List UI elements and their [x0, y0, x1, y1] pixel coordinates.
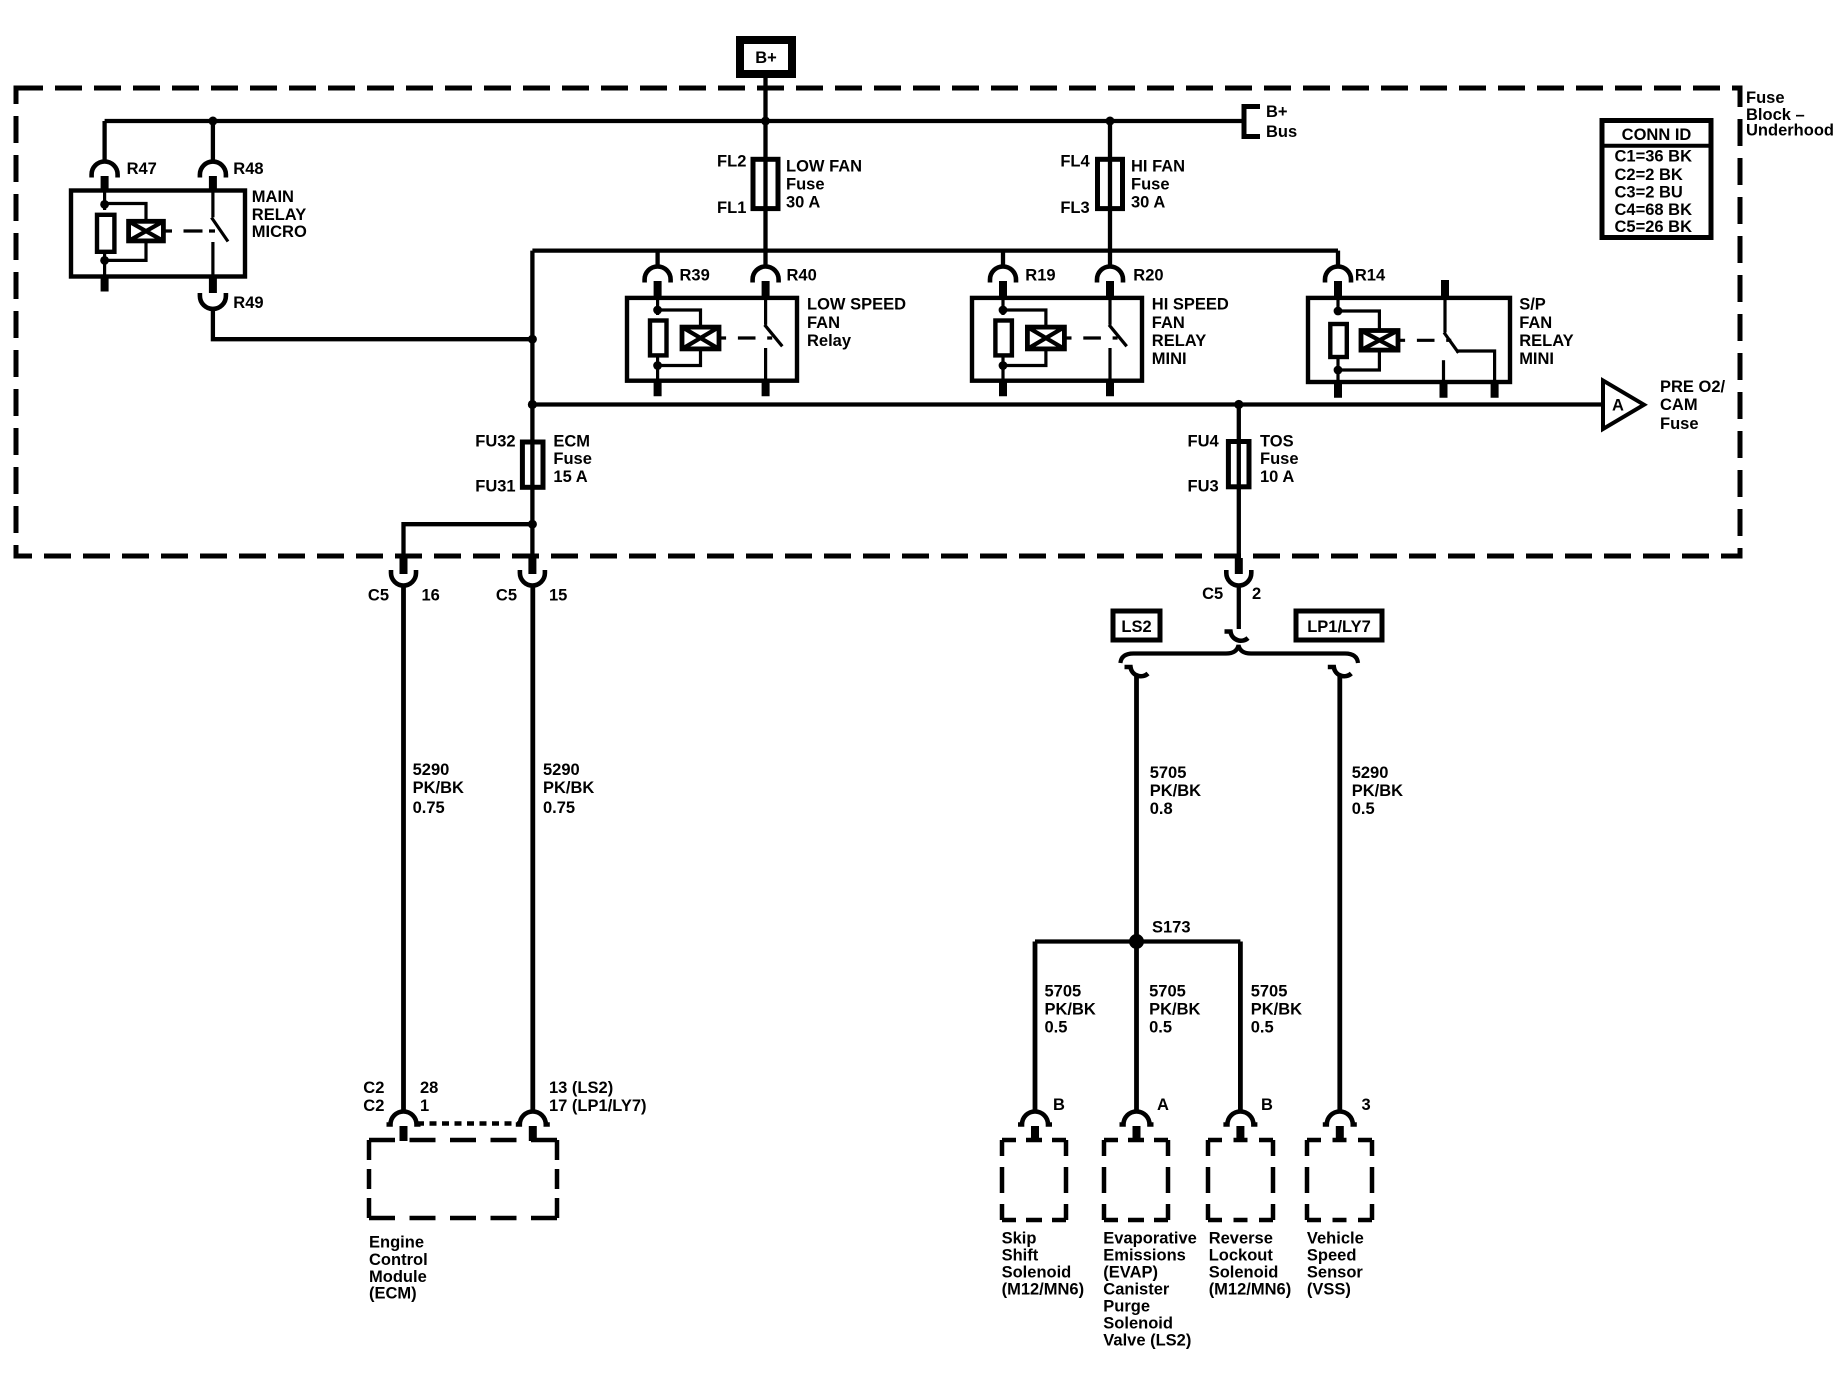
svg-text:PRE O2/: PRE O2/	[1660, 378, 1726, 396]
svg-text:5290: 5290	[1352, 764, 1389, 782]
wire resistor bottom	[656, 355, 659, 370]
s/p relay bottom pin stubs	[1338, 382, 1495, 398]
svg-text:FL3: FL3	[1060, 199, 1089, 217]
wire 5290 PK/BK 0.75 right	[530, 586, 535, 1112]
label 5705 PK/BK 0.5 right	[1251, 983, 1302, 1037]
label Fuse Block - Underhood	[1746, 89, 1834, 140]
svg-text:Canister: Canister	[1103, 1281, 1170, 1299]
svg-text:B+: B+	[1266, 103, 1288, 121]
svg-text:R49: R49	[233, 294, 263, 312]
svg-text:LOW FAN: LOW FAN	[786, 157, 862, 175]
connector C5 pin 2	[1202, 558, 1261, 603]
label 5705 PK/BK 0.5 left	[1045, 983, 1096, 1037]
fuse FL4 HI FAN wire	[1108, 121, 1112, 267]
label 5290 PK/BK 0.5	[1352, 764, 1403, 818]
svg-text:17 (LP1/LY7): 17 (LP1/LY7)	[549, 1097, 647, 1115]
svg-text:ECM: ECM	[553, 433, 590, 451]
branch hook LS2 side	[1125, 667, 1149, 676]
svg-text:RELAY: RELAY	[1519, 332, 1573, 350]
wire 5290 PK/BK 0.5 VSS branch	[1337, 674, 1342, 1112]
fuse block underhood dashed border	[16, 88, 1740, 556]
svg-text:R40: R40	[787, 267, 817, 285]
node main relay coil top	[100, 200, 109, 209]
wire 5705 PK/BK 0.8 LS2 branch	[1134, 674, 1139, 942]
node lowspeed coil bottom	[653, 361, 662, 370]
wire B+ down to bus	[763, 78, 767, 121]
dotted connector joint line	[417, 1121, 520, 1126]
B+ terminal box	[740, 40, 792, 74]
svg-text:5705: 5705	[1251, 983, 1288, 1001]
wire branch to C5-16	[404, 524, 533, 558]
node ECM branch	[528, 520, 537, 529]
resistor s/p relay	[1330, 324, 1347, 357]
svg-text:HI SPEED: HI SPEED	[1152, 295, 1229, 313]
connector skip shift pin B	[1018, 1096, 1065, 1141]
VSS dashed box	[1307, 1140, 1372, 1220]
wire resistor to bottom node	[103, 252, 106, 265]
svg-text:FU32: FU32	[475, 433, 515, 451]
wire coil branch bottom	[1338, 350, 1379, 370]
fuse FL2	[717, 153, 862, 218]
svg-text:S/P: S/P	[1519, 295, 1546, 313]
svg-text:30 A: 30 A	[786, 193, 820, 211]
svg-text:5705: 5705	[1150, 764, 1187, 782]
svg-text:1: 1	[420, 1097, 429, 1115]
node hispeed coil top	[999, 306, 1008, 315]
connector R49	[200, 277, 264, 313]
svg-text:C5: C5	[368, 587, 389, 605]
relay K1 LOW SPEED FAN Relay box	[627, 298, 797, 381]
svg-text:Evaporative: Evaporative	[1103, 1230, 1197, 1248]
svg-text:RELAY: RELAY	[1152, 332, 1206, 350]
svg-text:15: 15	[549, 587, 567, 605]
hi speed relay bottom pin stubs	[1003, 381, 1110, 397]
svg-text:Fuse: Fuse	[1746, 89, 1785, 107]
connector C5 pin 15	[496, 558, 567, 605]
connector R19	[990, 267, 1056, 299]
svg-text:13 (LS2): 13 (LS2)	[549, 1079, 613, 1097]
svg-text:TOS: TOS	[1260, 433, 1294, 451]
svg-text:CAM: CAM	[1660, 396, 1698, 414]
wire coil branch bottom	[1003, 349, 1046, 366]
connector C5 pin 16	[368, 558, 440, 605]
svg-text:0.75: 0.75	[413, 799, 445, 817]
svg-text:LOW SPEED: LOW SPEED	[807, 295, 906, 313]
connector R48	[200, 160, 264, 191]
switch low speed relay	[765, 298, 783, 381]
svg-text:(M12/MN6): (M12/MN6)	[1002, 1281, 1085, 1299]
label 5705 PK/BK 0.8	[1150, 764, 1201, 818]
fuse FL4	[1060, 153, 1185, 218]
svg-text:C3=2 BU: C3=2 BU	[1615, 183, 1683, 201]
svg-text:FL2: FL2	[717, 153, 746, 171]
skip shift solenoid dashed box	[1002, 1140, 1066, 1220]
node bus/R48	[208, 117, 217, 126]
svg-text:HI FAN: HI FAN	[1131, 157, 1185, 175]
svg-text:16: 16	[422, 587, 440, 605]
svg-text:0.8: 0.8	[1150, 800, 1173, 818]
wire node to box bottom	[656, 366, 659, 381]
coil actuator dashes hi speed	[1064, 336, 1117, 339]
switch hi speed relay	[1109, 298, 1127, 381]
coil main relay	[129, 221, 164, 241]
wire bus down to R48	[211, 121, 215, 161]
coil actuator dashes main relay	[163, 229, 215, 232]
svg-text:PK/BK: PK/BK	[1150, 782, 1201, 800]
svg-text:Module: Module	[369, 1268, 427, 1286]
svg-text:B+: B+	[755, 49, 777, 67]
svg-text:0.5: 0.5	[1251, 1019, 1274, 1037]
node lowspeed coil top	[653, 306, 662, 315]
svg-text:R20: R20	[1133, 267, 1163, 285]
svg-text:5290: 5290	[413, 761, 450, 779]
svg-text:Engine: Engine	[369, 1234, 424, 1252]
svg-text:PK/BK: PK/BK	[413, 779, 464, 797]
resistor main relay	[97, 215, 114, 252]
svg-text:LP1/LY7: LP1/LY7	[1307, 618, 1371, 636]
svg-text:FAN: FAN	[1152, 314, 1185, 332]
S/P FAN RELAY MINI label	[1519, 295, 1573, 368]
svg-text:S173: S173	[1152, 919, 1191, 937]
svg-text:A: A	[1612, 397, 1624, 415]
switch main relay	[212, 191, 229, 277]
MAIN RELAY MICRO label	[252, 188, 307, 241]
svg-text:Fuse: Fuse	[786, 175, 825, 193]
svg-text:C5: C5	[1202, 585, 1223, 603]
connector VSS pin 3	[1323, 1096, 1371, 1141]
low speed relay coil feed	[656, 298, 659, 315]
node feed/main	[528, 400, 537, 409]
B+ Bus terminal bracket	[1244, 103, 1297, 141]
svg-text:LS2: LS2	[1121, 618, 1151, 636]
wire reverse lockout branch	[1238, 942, 1243, 1112]
svg-text:C1=36 BK: C1=36 BK	[1615, 148, 1693, 166]
svg-text:0.5: 0.5	[1352, 800, 1375, 818]
svg-text:30 A: 30 A	[1131, 193, 1165, 211]
svg-text:(ECM): (ECM)	[369, 1285, 417, 1303]
LOW SPEED FAN Relay label	[807, 295, 906, 350]
option box LS2	[1113, 611, 1160, 640]
svg-text:Control: Control	[369, 1251, 428, 1269]
svg-text:B: B	[1261, 1096, 1273, 1114]
ECM pin labels	[363, 1079, 646, 1115]
svg-text:Solenoid: Solenoid	[1209, 1264, 1279, 1282]
svg-text:Fuse: Fuse	[1260, 450, 1299, 468]
svg-text:FL1: FL1	[717, 199, 746, 217]
svg-text:Vehicle: Vehicle	[1307, 1230, 1364, 1248]
svg-text:PK/BK: PK/BK	[1045, 1001, 1096, 1019]
fuse TOS FU4/FU3 wire	[1237, 405, 1241, 559]
svg-text:C5=26 BK: C5=26 BK	[1615, 218, 1693, 236]
svg-text:Relay: Relay	[807, 332, 852, 350]
svg-text:FU4: FU4	[1188, 433, 1220, 451]
svg-text:R48: R48	[233, 160, 263, 178]
connector R40	[753, 267, 817, 299]
wire coil branch top	[1338, 311, 1379, 331]
low speed relay bottom pin stubs	[658, 381, 766, 397]
relay U1 MAIN RELAY MICRO box	[71, 191, 245, 277]
svg-text:C2: C2	[363, 1079, 384, 1097]
svg-text:10 A: 10 A	[1260, 468, 1294, 486]
svg-text:Lockout: Lockout	[1209, 1247, 1274, 1265]
s/p relay top pin stub	[1441, 280, 1449, 298]
connector ECM pin 28/1	[387, 1112, 421, 1142]
wire coil branch bottom	[658, 349, 701, 366]
label 5705 PK/BK 0.5 middle	[1149, 983, 1200, 1037]
reverse lockout solenoid dashed box	[1208, 1140, 1273, 1220]
wire EVAP branch	[1134, 942, 1139, 1112]
svg-text:C5: C5	[496, 587, 517, 605]
node main relay coil bottom	[100, 256, 109, 265]
svg-text:FAN: FAN	[807, 314, 840, 332]
svg-text:PK/BK: PK/BK	[1149, 1001, 1200, 1019]
node bus/FL2	[761, 117, 770, 126]
svg-text:FU3: FU3	[1188, 477, 1219, 495]
relay K2 HI SPEED FAN RELAY MINI box	[972, 298, 1142, 381]
svg-text:0.75: 0.75	[543, 799, 575, 817]
svg-text:Reverse: Reverse	[1209, 1230, 1273, 1248]
svg-text:C4=68 BK: C4=68 BK	[1615, 201, 1693, 219]
coil low speed relay	[682, 327, 719, 349]
svg-text:(VSS): (VSS)	[1307, 1281, 1351, 1299]
wire coil branch bottom	[105, 241, 146, 261]
main relay pin 85 stub	[101, 277, 109, 292]
svg-text:PK/BK: PK/BK	[1251, 1001, 1302, 1019]
svg-text:CONN ID: CONN ID	[1622, 126, 1692, 144]
svg-text:Sensor: Sensor	[1307, 1264, 1364, 1282]
wire ECM fuse down to branch node	[530, 487, 534, 558]
main relay coil feed wire	[103, 191, 106, 211]
label 5290 PK/BK 0.75 left	[413, 761, 464, 817]
wire coil branch top	[1003, 310, 1046, 327]
relay K3 S/P FAN RELAY MINI box	[1308, 298, 1510, 382]
connector R39	[645, 267, 710, 299]
splice S173	[1129, 919, 1191, 950]
branch hook LP1/LY7 side	[1328, 667, 1352, 676]
switch s/p relay	[1444, 298, 1495, 382]
resistor low speed relay	[650, 321, 667, 356]
connector reverse lockout pin B	[1223, 1096, 1273, 1141]
svg-text:C2=2 BK: C2=2 BK	[1615, 166, 1683, 184]
node feed line	[528, 335, 537, 344]
svg-text:Fuse: Fuse	[1131, 175, 1170, 193]
svg-text:Emissions: Emissions	[1103, 1247, 1186, 1265]
node s/p coil bottom	[1334, 366, 1343, 375]
svg-text:FL4: FL4	[1060, 153, 1090, 171]
wire C5-2 down to split	[1237, 586, 1241, 630]
wire main bus	[105, 119, 1243, 123]
off-page triangle A PRE O2/CAM Fuse	[1603, 378, 1726, 433]
Vehicle Speed Sensor label	[1307, 1230, 1364, 1299]
resistor hi speed relay	[995, 321, 1012, 356]
svg-text:Bus: Bus	[1266, 123, 1297, 141]
node feed/TOS	[1234, 400, 1243, 409]
fuse FL2 LOW FAN wire	[763, 121, 767, 267]
svg-text:MINI: MINI	[1519, 350, 1554, 368]
svg-text:R39: R39	[680, 267, 710, 285]
svg-text:Solenoid: Solenoid	[1002, 1264, 1072, 1282]
Engine Control Module (ECM) label	[369, 1234, 428, 1303]
CONN ID table	[1602, 121, 1711, 238]
wire node to box bottom	[103, 260, 106, 276]
wire feed line to PRE O2	[532, 251, 1602, 442]
wire coil branch top	[658, 310, 701, 327]
svg-text:5290: 5290	[543, 761, 580, 779]
svg-text:Skip: Skip	[1002, 1230, 1037, 1248]
svg-text:Fuse: Fuse	[1660, 415, 1699, 433]
wire node to box bottom	[1336, 370, 1339, 382]
svg-text:Underhood: Underhood	[1746, 122, 1834, 140]
Evaporative Emissions label	[1103, 1230, 1197, 1350]
node bus/FL4	[1106, 117, 1115, 126]
svg-text:C2: C2	[363, 1097, 384, 1115]
svg-text:Shift: Shift	[1002, 1247, 1039, 1265]
fuse ECM FU32/FU31	[475, 433, 592, 496]
wire resistor bottom	[1001, 355, 1004, 370]
wire skip shift branch	[1033, 942, 1038, 1112]
wire R19 tick	[1001, 251, 1005, 267]
svg-text:R14: R14	[1355, 267, 1386, 285]
wire node to box bottom	[1001, 366, 1004, 381]
wire R49 to feed node	[213, 309, 533, 339]
wire S173 distribution	[1035, 939, 1240, 943]
connector EVAP pin A	[1120, 1096, 1170, 1141]
svg-text:Valve (LS2): Valve (LS2)	[1103, 1332, 1191, 1350]
svg-text:FAN: FAN	[1519, 314, 1552, 332]
connector R47	[92, 160, 157, 191]
label 5290 PK/BK 0.75 right	[543, 761, 594, 817]
wire relay top line	[532, 248, 1338, 252]
Skip Shift Solenoid label	[1002, 1230, 1085, 1299]
node s/p coil top	[1334, 307, 1343, 316]
svg-text:A: A	[1157, 1096, 1169, 1114]
fuse TOS	[1188, 433, 1299, 496]
wire bus down to R47	[102, 121, 106, 161]
coil actuator dashes s/p	[1398, 339, 1451, 342]
svg-text:28: 28	[420, 1079, 438, 1097]
svg-text:MICRO: MICRO	[252, 223, 307, 241]
svg-text:Speed: Speed	[1307, 1247, 1357, 1265]
svg-text:B: B	[1053, 1096, 1065, 1114]
ECM dashed box	[369, 1140, 557, 1218]
coil s/p relay	[1361, 331, 1398, 351]
svg-text:0.5: 0.5	[1149, 1019, 1172, 1037]
svg-text:(EVAP): (EVAP)	[1103, 1264, 1158, 1282]
wire break hook at split	[1225, 632, 1249, 641]
svg-text:Solenoid: Solenoid	[1103, 1315, 1173, 1333]
connector R14	[1325, 267, 1386, 299]
svg-text:R47: R47	[127, 160, 157, 178]
node hispeed coil bottom	[999, 361, 1008, 370]
svg-text:Fuse: Fuse	[553, 450, 592, 468]
svg-text:2: 2	[1252, 585, 1261, 603]
svg-text:5705: 5705	[1045, 983, 1082, 1001]
svg-text:PK/BK: PK/BK	[1352, 782, 1403, 800]
coil hi speed relay	[1027, 327, 1064, 349]
EVAP solenoid dashed box	[1104, 1140, 1168, 1220]
svg-text:MINI: MINI	[1152, 350, 1187, 368]
s/p relay coil feed	[1336, 298, 1339, 315]
svg-text:(M12/MN6): (M12/MN6)	[1209, 1281, 1292, 1299]
svg-text:FU31: FU31	[475, 477, 515, 495]
Reverse Lockout Solenoid label	[1209, 1230, 1292, 1299]
connector R20	[1097, 267, 1164, 299]
wire resistor bottom	[1336, 357, 1339, 372]
svg-text:Purge: Purge	[1103, 1298, 1150, 1316]
svg-text:RELAY: RELAY	[252, 206, 306, 224]
svg-text:PK/BK: PK/BK	[543, 779, 594, 797]
wire R39 tick	[655, 251, 659, 267]
svg-text:R19: R19	[1025, 267, 1055, 285]
hi speed relay coil feed	[1001, 298, 1004, 315]
connector ECM pin 13/17	[516, 1112, 550, 1142]
HI SPEED FAN RELAY MINI label	[1152, 295, 1229, 368]
svg-text:3: 3	[1362, 1096, 1371, 1114]
coil actuator dashes low speed	[719, 336, 772, 339]
option box LP1/LY7	[1296, 611, 1382, 640]
svg-text:MAIN: MAIN	[252, 188, 294, 206]
svg-text:0.5: 0.5	[1045, 1019, 1068, 1037]
svg-text:15 A: 15 A	[553, 468, 587, 486]
svg-text:5705: 5705	[1149, 983, 1186, 1001]
wire 5290 PK/BK 0.75 left	[401, 586, 406, 1112]
wire coil branch top	[105, 204, 146, 222]
splice brace options split	[1120, 645, 1358, 663]
wire R14 drop	[1336, 251, 1340, 267]
